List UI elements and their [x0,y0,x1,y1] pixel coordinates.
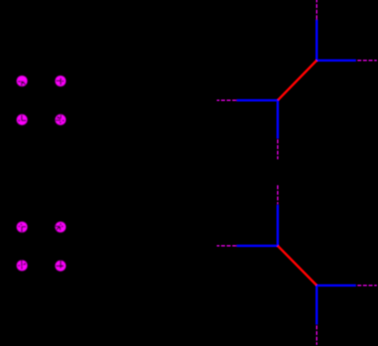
wire W9 (blue horizontal right from J4) [317,284,356,286]
net stub N3 (dashed magenta, left end) [217,99,236,101]
wire W1 (blue vertical to junction J1) [316,20,318,61]
pin P2 (magenta contact circle) [55,76,66,87]
wire W2 (blue horizontal right from J1) [317,59,356,61]
pin P8 (magenta contact circle) [55,260,66,271]
wire W8 (red diagonal J3 to J4) [278,246,317,286]
pin P1 (magenta contact circle, top-left group) [17,76,28,87]
transistor Q1 (upper structure) [217,0,377,159]
wire W10 (blue vertical down from J4) [316,285,318,324]
net stub N7 (dashed magenta, right edge) [357,284,376,286]
pin P6 (magenta contact circle) [54,222,66,233]
wire W5 (blue vertical down from J2) [277,100,279,138]
wire W6 (blue vertical down to junction J3) [277,205,279,246]
transistor Q2 (lower structure, mirror of Q1) [217,185,377,345]
wire W7 (blue horizontal left from J3) [237,245,278,247]
net stub N1 (dashed magenta, top edge) [316,0,318,20]
pin P7 (magenta contact circle) [17,260,28,271]
net stub N6 (dashed magenta, left end) [217,245,236,247]
wire W3 (red diagonal J1 to J2) [278,60,317,100]
net stub N8 (dashed magenta, bottom edge) [316,326,318,345]
pin P3 (magenta contact circle) [17,114,28,125]
pin P5 (magenta contact circle, bottom-left group) [17,222,28,233]
net stub N5 (dashed magenta, upper end) [277,185,279,204]
pin P4 (magenta contact circle) [55,114,66,125]
net stub N4 (dashed magenta, lower end) [277,140,279,160]
wire W4 (blue horizontal left from J2) [237,99,278,101]
net stub N2 (dashed magenta, right edge) [357,59,376,61]
